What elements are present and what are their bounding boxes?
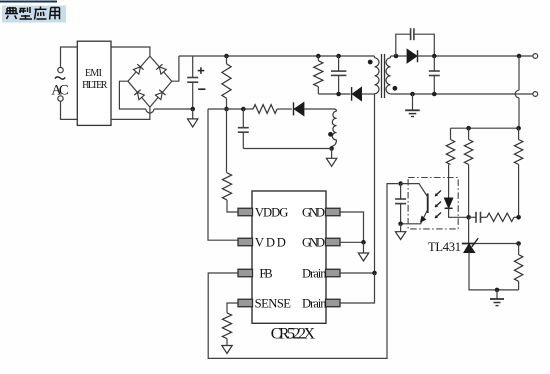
junction dot C4 top xyxy=(336,54,341,59)
ground arrow IC xyxy=(358,242,368,261)
secondary polarity dot xyxy=(393,86,398,91)
wire return to bulk cap xyxy=(154,108,191,110)
resistor R8 xyxy=(464,128,472,217)
diode D3 output xyxy=(407,49,417,63)
AC tilde symbol xyxy=(55,77,65,79)
pin Drain1 xyxy=(326,269,341,277)
ground arrow sense xyxy=(222,339,232,354)
transformer core xyxy=(382,54,385,98)
resistor R5 xyxy=(314,56,323,94)
opto light arrow 3 xyxy=(435,213,441,219)
wire output rail bottom xyxy=(391,93,533,95)
pin GND2 xyxy=(326,238,341,246)
AC terminal bottom xyxy=(58,96,63,101)
svg-text:CR522X: CR522X xyxy=(271,325,316,342)
TL431 U3 xyxy=(462,238,478,252)
diode D4 xyxy=(352,87,375,101)
junction dot R5 top xyxy=(316,54,321,59)
svg-text:EMI: EMI xyxy=(85,68,102,79)
ground arrow C1 xyxy=(188,109,198,127)
primary polarity dot xyxy=(368,60,373,65)
svg-text:AC: AC xyxy=(51,82,68,98)
wire VDD vertical to pin xyxy=(208,109,238,240)
junction dot C1 bottom xyxy=(190,107,195,112)
resistor R7 xyxy=(446,128,454,164)
wire bridge left vertex to return xyxy=(119,81,145,109)
wire SENSE xyxy=(227,303,238,313)
resistor R9 xyxy=(514,128,522,217)
capacitor C8 xyxy=(469,212,487,223)
junction dot divider tap xyxy=(517,54,522,59)
wire HV rail xyxy=(179,55,375,57)
wire bridge right vertex to HV rail xyxy=(172,56,179,81)
capacitor C5 xyxy=(411,28,414,40)
junction dot earth xyxy=(410,92,415,97)
wire R10 to divider xyxy=(514,216,519,218)
capacitor C4 xyxy=(331,56,346,94)
EMI filter box xyxy=(77,41,111,125)
wire fb rail xyxy=(451,127,519,129)
wire FB xyxy=(208,184,398,359)
title text 典型应用 (hand-drawn) xyxy=(5,7,60,20)
junction dot anode gnd xyxy=(495,288,500,293)
resistor R10 xyxy=(487,213,514,221)
opto U2 box xyxy=(408,178,458,229)
junction dot R1 top xyxy=(224,54,229,59)
pin SENSE xyxy=(238,299,253,307)
wire hop at bridge return xyxy=(146,109,154,113)
wire aux return xyxy=(243,148,331,150)
capacitor C1 xyxy=(187,56,198,109)
junction dot led cathode xyxy=(466,215,471,220)
junction dot R1 bottom xyxy=(224,107,229,112)
junction dot C6 bottom xyxy=(432,92,437,97)
junction dot C2 top xyxy=(241,107,246,112)
pin Drain2 xyxy=(326,299,341,307)
junction dot aux gnd xyxy=(329,146,334,151)
IC U1 CR522X body xyxy=(252,191,326,323)
earth ground TL431 xyxy=(490,290,504,306)
junction dot C6 top xyxy=(432,54,437,59)
snubber cap loop right xyxy=(414,34,434,56)
junction dot comp xyxy=(516,215,521,220)
junction dot fb rail a xyxy=(466,126,471,131)
svg-text:Drain: Drain xyxy=(302,266,327,280)
wire TL431 ref xyxy=(476,243,519,245)
wire divider drop xyxy=(515,56,519,128)
wire Drain1 xyxy=(340,272,375,274)
resistor R6 sense xyxy=(222,313,231,339)
output terminal top xyxy=(533,54,538,59)
wire EMI bottom to bridge xyxy=(111,107,150,119)
title highlight xyxy=(2,6,66,23)
earth ground secondary xyxy=(405,94,420,117)
wire Drain2 xyxy=(340,273,375,303)
wire EMI top to bridge xyxy=(111,47,150,56)
svg-text:VDD: VDD xyxy=(255,235,286,249)
opto transistor xyxy=(401,184,428,224)
junction dot ref xyxy=(516,241,521,246)
junction dot opto collector xyxy=(398,181,403,186)
transformer primary winding xyxy=(375,56,380,94)
ground arrow opto xyxy=(395,224,405,240)
junction dot drain xyxy=(372,271,377,276)
snubber cap loop xyxy=(396,34,411,56)
junction dot secondary top xyxy=(394,54,399,59)
pin GND1 xyxy=(326,208,341,216)
resistor R2 xyxy=(253,105,277,114)
svg-text:FB: FB xyxy=(259,266,272,280)
junction dot fb rail b xyxy=(516,126,521,131)
svg-text:TL431: TL431 xyxy=(428,240,461,254)
AC terminal top xyxy=(58,67,63,72)
pin VDDG xyxy=(238,208,253,216)
wire drain xyxy=(374,94,376,273)
svg-text:FILTER: FILTER xyxy=(82,80,108,91)
svg-text:GND: GND xyxy=(302,235,325,249)
opto light arrow 2 xyxy=(435,202,441,208)
diode D2 xyxy=(294,102,335,115)
svg-text:Drain: Drain xyxy=(302,296,327,310)
opto LED xyxy=(444,165,466,218)
wire TL431 anode xyxy=(469,253,519,290)
aux winding polarity dot xyxy=(328,132,333,137)
aux winding xyxy=(332,109,337,149)
capacitor C7 xyxy=(395,184,406,224)
resistor R11 xyxy=(514,244,522,290)
opto light arrow 1 xyxy=(435,191,441,197)
pin VDD xyxy=(238,238,253,246)
junction dot GND xyxy=(361,240,366,245)
svg-text:GND: GND xyxy=(302,205,325,219)
bridge diode D1b xyxy=(156,64,167,74)
ground arrow aux xyxy=(326,149,336,167)
svg-text:SENSE: SENSE xyxy=(255,296,292,310)
capacitor C2 xyxy=(238,109,249,149)
pin FB xyxy=(238,269,253,277)
bridge diode D1d xyxy=(155,90,166,100)
wire output rail top xyxy=(417,55,532,57)
bridge diode D1c xyxy=(134,90,145,100)
resistor R3 VDDG xyxy=(222,109,238,212)
wire VDD horizontal xyxy=(208,108,292,110)
junction dot snubber xyxy=(336,92,341,97)
capacitor C6 xyxy=(429,56,440,94)
wire AC bottom to EMI xyxy=(61,101,78,119)
bridge diode D1a xyxy=(133,64,144,74)
wire AC top to EMI xyxy=(61,47,78,67)
output terminal bottom xyxy=(533,92,538,97)
wire snubber bottom xyxy=(318,93,350,95)
svg-text:VDDG: VDDG xyxy=(255,205,289,219)
resistor R1 xyxy=(222,56,231,109)
wire secondary top xyxy=(391,55,407,57)
title top blue rule xyxy=(0,1,57,3)
C1 minus sign xyxy=(198,88,205,90)
transformer secondary winding xyxy=(386,56,391,94)
junction dot opto emitter xyxy=(398,222,403,227)
bridge diamond xyxy=(128,56,172,107)
wire to TL431 cathode xyxy=(468,217,470,243)
C1 plus sign xyxy=(198,67,205,74)
wire GND pins xyxy=(340,212,364,242)
